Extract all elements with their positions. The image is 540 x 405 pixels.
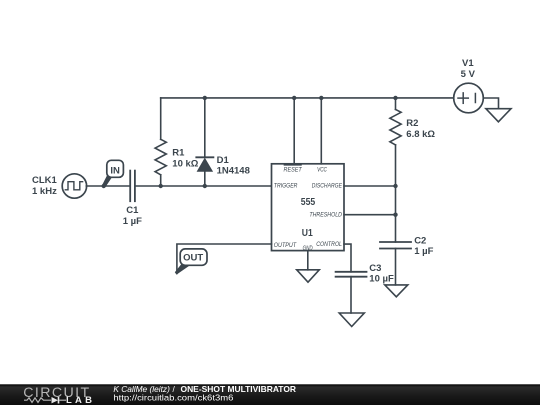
svg-text:OUTPUT: OUTPUT bbox=[274, 242, 298, 249]
wire V1 to ground bbox=[483, 98, 498, 109]
ground at V1 bbox=[486, 109, 511, 122]
svg-text:DISCHARGE: DISCHARGE bbox=[312, 183, 343, 190]
label C1 value 1 uF bbox=[123, 205, 142, 227]
svg-text:THRESHOLD: THRESHOLD bbox=[309, 211, 342, 218]
svg-text:CONTROL: CONTROL bbox=[316, 241, 342, 248]
svg-text:C3: C3 bbox=[369, 263, 381, 274]
label CLK1 value 1 kHz bbox=[32, 175, 58, 197]
wire top rail (R1 top to V1) bbox=[161, 97, 454, 99]
svg-text:5 V: 5 V bbox=[461, 69, 476, 80]
label D1 value 1N4148 bbox=[217, 155, 250, 176]
resistor R1 bbox=[155, 98, 166, 186]
svg-text:D1: D1 bbox=[217, 155, 230, 166]
svg-text:U1: U1 bbox=[302, 228, 313, 239]
label V1 value 5 V bbox=[461, 58, 476, 80]
label C3 value 10 uF bbox=[369, 263, 394, 285]
label R1 value 10 kOhm bbox=[172, 148, 198, 170]
svg-text:VCC: VCC bbox=[317, 167, 327, 174]
wire RESET pin to top rail bbox=[293, 98, 295, 164]
flag IN bbox=[102, 160, 123, 187]
footer credit line bbox=[113, 385, 296, 403]
wire DISCHARGE to R2 branch bbox=[344, 185, 396, 187]
voltage source V1 bbox=[454, 83, 484, 113]
svg-text:RESET: RESET bbox=[284, 167, 303, 174]
svg-text:R1: R1 bbox=[172, 148, 185, 159]
RESET overline bbox=[284, 164, 301, 166]
ground under C3 bbox=[339, 277, 364, 327]
junction DISCHARGE / R2 branch bbox=[393, 184, 397, 188]
wire CONTROL to C3 bbox=[344, 244, 351, 272]
svg-text:IN: IN bbox=[110, 165, 120, 176]
junction D1 bottom on trigger net bbox=[203, 184, 207, 188]
junction R1 bottom on trigger net bbox=[159, 184, 163, 188]
wire trigger net left (CLK1 to C1) bbox=[86, 185, 129, 187]
voltage source CLK1 square wave bbox=[62, 174, 86, 198]
capacitor C3 bbox=[336, 272, 367, 277]
ground under C2 bbox=[385, 249, 408, 297]
IC U1 555 timer bbox=[272, 164, 345, 252]
label C2 value 1 uF bbox=[414, 235, 433, 256]
node IN tap junction bbox=[102, 184, 106, 188]
junction top rail / R2 bbox=[393, 96, 397, 100]
CircuitLab logo bbox=[23, 385, 92, 405]
label R2 value 6.8 kOhm bbox=[406, 118, 435, 140]
svg-text:http://circuitlab.com/ck6t3m6: http://circuitlab.com/ck6t3m6 bbox=[113, 393, 233, 403]
svg-text:6.8 kΩ: 6.8 kΩ bbox=[406, 129, 435, 140]
svg-text:1 µF: 1 µF bbox=[123, 216, 142, 227]
diode D1 1N4148 bbox=[196, 98, 213, 186]
wire VCC pin to top rail bbox=[320, 98, 322, 164]
capacitor C1 bbox=[130, 171, 135, 202]
svg-text:R2: R2 bbox=[406, 118, 418, 129]
svg-text:10 µF: 10 µF bbox=[369, 274, 394, 285]
junction top rail / VCC pin wire bbox=[319, 96, 323, 100]
resistor R2 bbox=[390, 98, 401, 242]
flag OUT bbox=[175, 249, 207, 275]
svg-text:C2: C2 bbox=[414, 235, 426, 246]
svg-text:555: 555 bbox=[301, 197, 316, 208]
svg-text:1N4148: 1N4148 bbox=[217, 166, 250, 177]
svg-text:1 kHz: 1 kHz bbox=[32, 186, 57, 197]
junction top rail / D1 bbox=[203, 96, 207, 100]
svg-text:CLK1: CLK1 bbox=[32, 175, 58, 186]
footer bar bbox=[0, 384, 540, 405]
ground at U1 GND pin bbox=[297, 251, 320, 283]
wire trigger net right (C1 to U1 TRIGGER pin) bbox=[136, 185, 272, 187]
svg-text:LAB: LAB bbox=[66, 395, 92, 405]
capacitor C2 bbox=[380, 242, 411, 249]
junction THRESHOLD / R2 branch bbox=[393, 213, 397, 217]
svg-text:C1: C1 bbox=[126, 205, 139, 216]
wire OUTPUT net bbox=[177, 244, 272, 274]
junction top rail / RESET pin wire bbox=[292, 96, 296, 100]
svg-text:10 kΩ: 10 kΩ bbox=[172, 158, 198, 169]
svg-text:V1: V1 bbox=[462, 58, 474, 69]
svg-text:1 µF: 1 µF bbox=[414, 246, 433, 257]
svg-text:OUT: OUT bbox=[183, 252, 203, 263]
wire THRESHOLD to R2 branch bbox=[344, 214, 396, 216]
svg-text:TRIGGER: TRIGGER bbox=[274, 183, 298, 190]
